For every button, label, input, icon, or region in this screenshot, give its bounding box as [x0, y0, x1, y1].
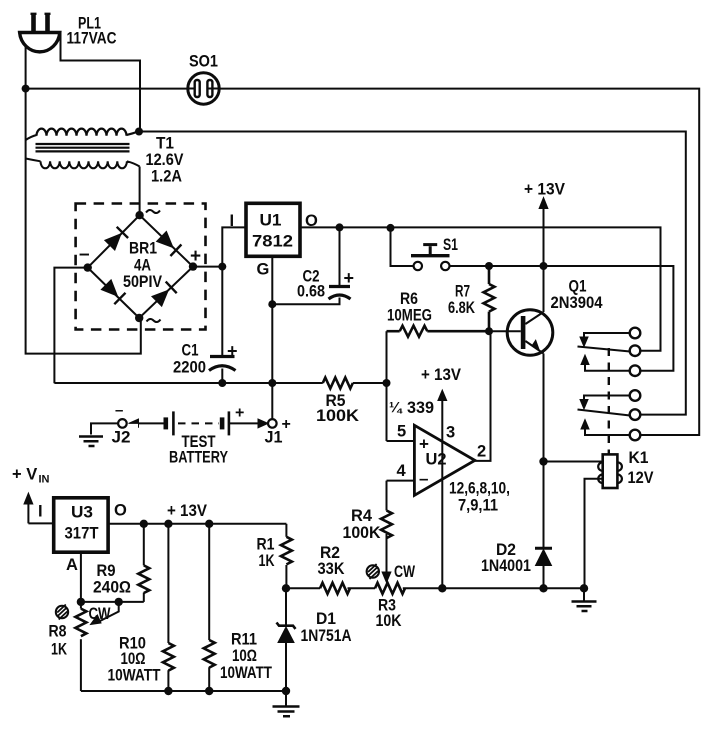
ground at relay return: [572, 588, 597, 611]
svg-text:–: –: [419, 469, 428, 488]
svg-text:J2: J2: [112, 429, 131, 447]
wiper arm R8: [91, 602, 119, 625]
svg-text:Q1: Q1: [569, 278, 587, 296]
svg-text:R7: R7: [455, 283, 470, 301]
wire Vin to U3: [28, 522, 53, 524]
test battery: [129, 411, 269, 435]
node bridge left vertex: [84, 263, 92, 271]
svg-text:4: 4: [397, 462, 407, 480]
svg-text:339: 339: [407, 399, 434, 417]
label C1 2200 +: [173, 341, 238, 377]
wire T1 row right to relay contact 5: [139, 132, 686, 415]
svg-text:+ 13V: + 13V: [524, 181, 565, 199]
svg-text:12.6V: 12.6V: [146, 151, 184, 169]
wire bottom return row: [81, 690, 286, 692]
resistor R1: [281, 524, 292, 589]
ground main: [273, 691, 300, 716]
svg-text:J1: J1: [265, 429, 283, 447]
svg-text:10Ω: 10Ω: [121, 650, 146, 668]
svg-text:7812: 7812: [252, 232, 293, 251]
label U1 pins I O G: [230, 212, 319, 279]
svg-text:–: –: [79, 244, 90, 265]
svg-text:1N4001: 1N4001: [481, 557, 531, 575]
svg-text:117VAC: 117VAC: [67, 30, 117, 48]
svg-text:+ 13V: + 13V: [421, 366, 461, 384]
wire dc common row: [54, 382, 386, 384]
bridge diamond edges: [88, 215, 193, 318]
wire AC neutral: plug left lead down to bridge bottom: [26, 44, 141, 354]
potentiometer R3: [375, 583, 405, 594]
resistor R6: [387, 326, 490, 337]
transistor Q1: [507, 310, 553, 356]
trimmer screw symbol R8: [56, 605, 68, 620]
wire adjust row to R9 bottom: [81, 601, 144, 603]
label 1/4 339: [389, 399, 434, 417]
svg-text:¼: ¼: [389, 400, 403, 417]
node emitter K1 junction: [539, 457, 547, 465]
svg-text:U3: U3: [71, 504, 93, 522]
node S1 tap: [387, 224, 395, 232]
wire SO1 row left segment: [26, 88, 188, 90]
label Q1 2N3904: [551, 278, 604, 313]
svg-text:3: 3: [446, 424, 455, 442]
relay coil K1: [544, 454, 622, 588]
wire secondary right lead to bridge top: [139, 167, 141, 216]
svg-text:33K: 33K: [318, 560, 345, 578]
relay contact circles: [630, 328, 641, 441]
svg-text:5: 5: [397, 423, 406, 441]
regulator U3 317T: [54, 498, 108, 552]
label R7 6.8K: [448, 283, 475, 318]
svg-text:10Ω: 10Ω: [232, 647, 257, 665]
svg-text:IN: IN: [39, 474, 50, 486]
svg-text:–: –: [115, 402, 123, 419]
node bridge top vertex: [135, 211, 143, 219]
node C1 tap: [218, 263, 226, 271]
label R11 10ohm 10WATT: [220, 631, 272, 683]
svg-text:K1: K1: [629, 449, 649, 467]
svg-text:50PIV: 50PIV: [123, 273, 162, 291]
node C2 return on G wire: [268, 300, 276, 308]
label PL1 117VAC: [67, 15, 117, 48]
svg-text:1N751A: 1N751A: [301, 627, 352, 645]
svg-text:I: I: [230, 212, 235, 230]
label R5 100K: [316, 392, 359, 425]
node R11 top: [205, 520, 213, 528]
resistor R7: [484, 266, 495, 331]
svg-text:C1: C1: [182, 342, 199, 360]
svg-text:2200: 2200: [173, 359, 206, 377]
wire U1 ground pin down to J1: [271, 256, 273, 419]
resistor R10: [163, 524, 174, 691]
svg-text:+ V: + V: [12, 466, 37, 484]
node G wire at ground row: [268, 379, 276, 387]
resistor R9: [138, 524, 149, 602]
svg-text:4A: 4A: [134, 257, 151, 275]
wire comparator output node to Q1 base: [489, 330, 521, 332]
transformer T1: [26, 129, 140, 169]
node R7 top: [485, 262, 493, 270]
svg-text:CW: CW: [89, 605, 111, 623]
relay contact arm 2 lower: [578, 396, 631, 436]
label K1 12V: [628, 449, 654, 487]
label U2 unused pins: [449, 480, 510, 515]
svg-text:R8: R8: [49, 623, 67, 641]
jack J2: [79, 419, 127, 446]
diode D2 1N4001: [535, 462, 552, 589]
svg-text:BATTERY: BATTERY: [169, 449, 228, 467]
wire ground row right section: [403, 587, 584, 589]
wire plug hot lead to T1 primary right: [54, 33, 141, 132]
svg-text:2: 2: [477, 443, 486, 461]
svg-text:10K: 10K: [376, 612, 402, 630]
svg-text:BR1: BR1: [129, 240, 157, 258]
svg-text:U2: U2: [426, 451, 447, 469]
label R10 10ohm 10WATT: [108, 635, 161, 685]
node R11 bottom: [205, 687, 213, 695]
resistor R2: [320, 583, 350, 594]
label C2 0.68 +: [297, 268, 354, 301]
power +Vin arrow: [12, 466, 50, 524]
svg-text:R11: R11: [231, 631, 257, 649]
wire between R2 and R3: [348, 587, 376, 589]
trimmer screw symbol R3: [367, 564, 379, 579]
label J2 minus: [112, 402, 131, 447]
label U2 pin numbers and inputs: [397, 423, 487, 489]
node C2 tap: [336, 223, 344, 231]
svg-text:10WATT: 10WATT: [220, 664, 272, 682]
capacitor C1: [209, 267, 236, 383]
wire row from D1 to R2: [286, 587, 320, 589]
label R8 1K: [49, 623, 68, 659]
svg-text:100K: 100K: [316, 407, 359, 425]
node junction at plug/SO1 tap: [22, 85, 30, 93]
svg-text:I: I: [38, 503, 43, 521]
wire SO1 row right to relay contact 6: [219, 89, 699, 435]
label U3 pins I O A: [38, 502, 127, 575]
node wiper riser: [115, 598, 123, 606]
svg-text:+: +: [190, 246, 201, 267]
wire bridge minus to ground row: [54, 268, 87, 384]
svg-text:317T: 317T: [65, 524, 100, 543]
svg-text:R4: R4: [351, 507, 373, 525]
diode BR1 top-left: [105, 227, 128, 250]
switch S1: [391, 228, 674, 371]
resistor R11: [204, 524, 215, 691]
svg-text:+: +: [282, 416, 291, 433]
wire +13V output row to R1: [108, 523, 286, 525]
op-amp U2 comparator: [387, 331, 491, 586]
svg-text:A: A: [66, 556, 78, 574]
node T1 primary right junction: [135, 128, 143, 136]
svg-text:D1: D1: [316, 610, 336, 628]
svg-text:R6: R6: [400, 290, 418, 308]
potentiometer R8: [75, 602, 86, 691]
wire Q1 emitter down to K1 node: [543, 354, 545, 462]
node R10 bottom: [164, 687, 172, 695]
label R2 33K: [318, 544, 345, 578]
svg-text:12,6,8,10,: 12,6,8,10,: [449, 480, 510, 498]
node R9 top: [140, 520, 148, 528]
resistor R5: [323, 378, 353, 389]
diode BR1 bottom-left: [101, 280, 125, 304]
svg-text:+: +: [235, 405, 244, 422]
svg-text:U1: U1: [260, 212, 282, 230]
svg-text:R9: R9: [97, 562, 116, 580]
svg-text:T1: T1: [156, 135, 174, 153]
relay contact arm 1 upper: [578, 333, 631, 371]
regulator U1 7812: [246, 203, 300, 256]
wire bridge plus to U1 input: [193, 227, 246, 266]
label R9 240ohm: [93, 562, 131, 597]
node bridge bottom vertex: [135, 314, 143, 322]
label R4 100K: [343, 507, 381, 542]
node D2 at ground row: [539, 584, 547, 592]
svg-text:CW: CW: [394, 563, 415, 581]
label D1 1N751A: [301, 610, 352, 645]
node U2 ground pins at row: [438, 584, 446, 592]
plug PL1: [20, 14, 60, 52]
svg-text:+ 13V: + 13V: [167, 502, 207, 520]
svg-text:1K: 1K: [51, 641, 67, 659]
svg-text:+: +: [344, 268, 355, 288]
svg-text:+: +: [227, 341, 238, 361]
svg-text:100K: 100K: [343, 524, 381, 542]
node C1 ground row: [218, 379, 226, 387]
node R1 D1 junction: [282, 584, 290, 592]
svg-text:6.8K: 6.8K: [448, 299, 475, 317]
wire R6 left down to pin5 node: [386, 331, 388, 441]
node R10 top: [164, 520, 172, 528]
wire U3 adjust pin: [80, 552, 82, 602]
node pin5 riser on common row: [383, 379, 391, 387]
diode D1 zener 1N751A: [277, 588, 296, 691]
bridge rectifier BR1 dashed box: [76, 204, 206, 330]
diode BR1 top-right: [157, 231, 182, 256]
label R6 10MEG: [387, 290, 432, 325]
node adjust pin R8 top: [77, 598, 85, 606]
svg-text:R1: R1: [257, 536, 275, 554]
jack J1: [268, 419, 277, 428]
socket SO1: [188, 73, 219, 104]
node D1 bottom: [282, 687, 290, 695]
diode BR1 bottom-right: [152, 282, 177, 307]
svg-text:1.2A: 1.2A: [151, 168, 182, 186]
node R6 R7 U2-out junction: [485, 327, 493, 335]
power +13V to Q1 collector: [524, 181, 565, 313]
wire U1 output row to relay contact 2: [300, 227, 661, 350]
node Q1 collector rail tap: [540, 262, 548, 270]
node bridge right vertex: [189, 262, 197, 270]
svg-text:SO1: SO1: [189, 53, 218, 71]
svg-text:S1: S1: [443, 236, 458, 254]
label D2 1N4001: [481, 541, 531, 575]
svg-text:0.68: 0.68: [297, 283, 325, 301]
svg-text:7,9,11: 7,9,11: [458, 497, 498, 515]
label R1 1K: [257, 536, 275, 571]
svg-text:2N3904: 2N3904: [551, 294, 604, 312]
svg-text:O: O: [114, 502, 127, 520]
wire dashed actuator link to K1: [608, 348, 610, 454]
label TEST BATTERY: [169, 405, 244, 467]
svg-text:1K: 1K: [259, 552, 275, 570]
svg-text:G: G: [257, 261, 270, 279]
svg-text:10WATT: 10WATT: [108, 667, 161, 685]
svg-text:12V: 12V: [628, 469, 654, 487]
label R3 10K CW: [376, 563, 416, 630]
node K1 return at ground row: [580, 584, 588, 592]
label T1 12.6V 1.2A: [146, 135, 184, 186]
svg-text:10MEG: 10MEG: [387, 307, 432, 325]
capacitor C2: [272, 227, 350, 304]
label J1 plus: [265, 416, 291, 447]
label ~ marks: [146, 210, 161, 322]
label BR1 4A 50PIV: [123, 240, 162, 291]
svg-text:240Ω: 240Ω: [93, 579, 131, 597]
resistor R4: [381, 511, 392, 583]
